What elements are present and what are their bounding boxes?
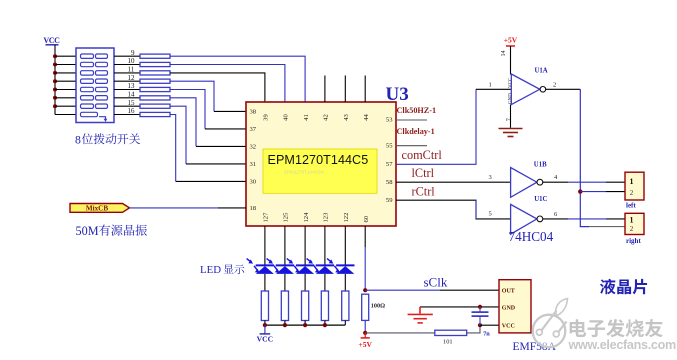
svg-text:sClk: sClk — [424, 274, 448, 289]
svg-text:1: 1 — [489, 82, 492, 89]
svg-text:EPM1270T144C5N: EPM1270T144C5N — [284, 170, 324, 175]
svg-text:lCtrl: lCtrl — [412, 166, 435, 180]
svg-text:U1C: U1C — [534, 196, 547, 203]
power +5V (bottom) — [358, 333, 372, 349]
LED D1 — [247, 259, 275, 274]
wire (resistor 101 to VCC node) — [467, 325, 480, 333]
watermark logo circle — [533, 299, 568, 348]
svg-text:101: 101 — [443, 338, 453, 345]
wire (switch to resistor row, pin 16) — [114, 114, 140, 116]
wire rCtrl (pin 59 to U1C input) — [396, 200, 511, 219]
resistor R13 100ohm — [362, 294, 369, 320]
resistor R4 — [140, 79, 170, 83]
junction (VCC rail row 6) — [53, 96, 57, 100]
wire (VCC rail to switch pin, row 5) — [55, 89, 76, 91]
svg-text:41: 41 — [303, 114, 310, 121]
svg-text:VCC: VCC — [43, 36, 60, 45]
wire (switch to resistor row, pin 11) — [114, 72, 140, 74]
wire (+5V node to resistor 101) — [365, 332, 435, 334]
connector J-right body — [625, 213, 644, 234]
wire (junction to left connector pin 2) — [580, 191, 606, 193]
svg-text:U1A: U1A — [535, 68, 548, 75]
junction (VCC bus at R11) — [303, 323, 307, 327]
svg-text:57: 57 — [386, 161, 393, 168]
wire comCtrl (pin 57 to U1A input) — [396, 89, 476, 164]
wire (switch to resistor row, pin 10) — [114, 64, 140, 66]
svg-text:60: 60 — [363, 215, 370, 222]
wire (switch to resistor row, pin 14) — [114, 97, 140, 99]
svg-text:38: 38 — [250, 109, 257, 116]
svg-text:59: 59 — [386, 197, 393, 204]
wire (U1A output vertical bus) — [580, 89, 589, 226]
resistor R12 (LED series) — [321, 291, 328, 321]
wire (U3 pin 60 down) — [364, 226, 366, 247]
svg-text:32: 32 — [250, 144, 257, 151]
wire (LED D1 to resistor) — [264, 274, 266, 291]
resistor R6 — [140, 96, 170, 100]
junction (VCC rail row 5) — [53, 88, 57, 92]
wire (resistor to VCC bus) — [284, 321, 286, 326]
svg-text:10: 10 — [128, 57, 136, 65]
wire stub (pin 55) + net Clkdelay-1 — [396, 145, 427, 147]
svg-text:U3: U3 — [386, 84, 409, 105]
resistor R1 — [140, 54, 170, 58]
wire (LED D4 to resistor) — [324, 274, 326, 291]
port MixCB (sheet entry arrow) — [70, 204, 130, 213]
svg-text:42: 42 — [323, 114, 330, 121]
wire (resistor to VCC bus) — [264, 321, 266, 326]
LED D4 — [307, 259, 335, 274]
resistor R13 (LED series) — [342, 291, 349, 321]
resistor R11 (LED series) — [302, 291, 309, 321]
svg-text:44: 44 — [363, 114, 370, 121]
svg-text:MixCB: MixCB — [86, 205, 109, 213]
label 50M crystal caption (50M有源晶振) — [99, 225, 147, 236]
wire (row 12 to pin 38) — [170, 81, 246, 111]
svg-text:2: 2 — [553, 82, 556, 89]
svg-text:EPM1270T144C5: EPM1270T144C5 — [268, 153, 369, 167]
svg-text:124: 124 — [303, 212, 310, 223]
resistor R2 — [140, 62, 170, 66]
watermark text (elecfans) — [570, 319, 663, 337]
label LED display caption (LED显示) — [224, 264, 245, 274]
wire (U3 pin 123 to LED D4) — [324, 226, 326, 265]
svg-text:right: right — [626, 237, 641, 245]
power VCC (bottom of LED bus) — [257, 325, 273, 343]
wire (row 15 to pin 31) — [170, 106, 246, 164]
wire (switch to resistor row, pin 15) — [114, 105, 140, 107]
svg-text:15: 15 — [128, 99, 136, 107]
wire (resistor to VCC bus) — [344, 321, 346, 326]
junction (to left connector pin 2) — [578, 189, 582, 193]
wire (VCC rail to switch pin, row 4) — [55, 80, 76, 82]
wire (row 13 to pin 37) — [170, 90, 246, 129]
svg-text:12: 12 — [128, 74, 136, 82]
wire (U3 pin 125 to LED D2) — [284, 226, 286, 265]
wire (oscillator GND pin to ground) — [420, 306, 499, 308]
resistor R3 — [140, 71, 170, 75]
wire stub (pin 42) — [324, 76, 326, 103]
svg-text:U1B: U1B — [534, 161, 547, 168]
wire (VCC rail to switch pin, row 6) — [55, 97, 76, 99]
wire (row 16 to pin 30) — [170, 115, 246, 182]
svg-text:40: 40 — [283, 114, 290, 121]
resistor R5 — [140, 87, 170, 91]
svg-text:8: 8 — [75, 132, 81, 146]
svg-text:+5V: +5V — [504, 36, 518, 45]
wire (U3 pin 122 to LED D5) — [344, 226, 346, 265]
wire (VCC rail to switch pin, row 1) — [55, 55, 76, 57]
svg-text:127: 127 — [263, 212, 270, 223]
wire (resistor to VCC bus) — [324, 321, 326, 326]
svg-text:11: 11 — [128, 66, 135, 74]
svg-text:comCtrl: comCtrl — [402, 148, 443, 162]
capacitor C1 7n — [472, 307, 489, 325]
resistor R9 (LED series) — [261, 291, 268, 321]
wire stub (pin 43) — [344, 76, 346, 103]
switch S1 body (8-bit DIP) — [76, 48, 114, 123]
wire (switch to resistor row, pin 13) — [114, 89, 140, 91]
svg-text:1: 1 — [630, 215, 634, 224]
junction (VCC rail row 7) — [53, 104, 57, 108]
ground (oscillator GND) — [408, 307, 433, 323]
label LCD caption (液晶片) — [600, 279, 647, 295]
resistor R10 (LED series) — [281, 291, 288, 321]
connector J-left body — [625, 172, 644, 200]
svg-text:+5V: +5V — [358, 340, 372, 349]
op-amp/inverter U1B (74HC04 gate) — [511, 168, 543, 198]
wire (LED D2 to resistor) — [284, 274, 286, 291]
power +5V (U1A pin 14) — [504, 36, 518, 47]
wire (row 10 to pin 40) — [170, 65, 285, 103]
svg-text:100Ω: 100Ω — [371, 303, 385, 310]
wire (U3 pin 124 to LED D3) — [304, 226, 306, 265]
wire (VCC rail to switch pin, row 2) — [55, 64, 76, 66]
wire lCtrl (pin 58 to U1B input) — [396, 181, 511, 183]
svg-text:55: 55 — [386, 142, 393, 149]
junction (VCC bus at R12) — [323, 323, 327, 327]
junction (VCC rail row 3) — [53, 71, 57, 75]
junction (sClk node) — [363, 288, 367, 292]
wire (row 9 to pin 41) — [170, 56, 305, 102]
svg-text:Clk50HZ-1: Clk50HZ-1 — [397, 106, 437, 115]
svg-text:7n: 7n — [483, 331, 490, 338]
wire (100ohm to +5V node) — [364, 320, 366, 333]
junction (+5V node) — [363, 331, 367, 335]
junction (VCC bus at R10) — [283, 323, 287, 327]
wire (LED D3 to resistor) — [304, 274, 306, 291]
oscillator U4 (OUT/GND/VCC box) — [499, 280, 531, 333]
op-amp/inverter U1C (74HC04 gate) — [511, 204, 543, 234]
wire (switch to resistor row, pin 12) — [114, 80, 140, 82]
LED D2 — [267, 259, 295, 274]
IC U3 inner value box — [263, 149, 377, 193]
svg-text:13: 13 — [128, 82, 136, 90]
svg-text:14: 14 — [128, 90, 136, 98]
svg-text:14: 14 — [501, 51, 507, 57]
svg-text:OUT: OUT — [502, 288, 515, 294]
resistor R8 — [140, 112, 170, 116]
svg-text:2: 2 — [630, 189, 634, 197]
wire (row 11 to pin 39) — [170, 73, 265, 102]
wire (U1A pin 14 to +5V) — [510, 46, 512, 75]
junction (VCC bus at R9) — [263, 323, 267, 327]
svg-text:rCtrl: rCtrl — [412, 185, 436, 199]
wire (MixCB to U3 pin 18) — [130, 207, 219, 209]
ground (U1A pin 7) — [499, 129, 523, 137]
op-amp/inverter U1A (74HC04 gate) — [509, 74, 546, 105]
junction (VCC rail row 1) — [53, 54, 57, 58]
wire stub (pin 44) — [364, 76, 366, 103]
svg-text:43: 43 — [343, 114, 350, 121]
svg-text:31: 31 — [250, 161, 257, 168]
svg-text:7: 7 — [506, 118, 512, 121]
svg-text:VCC: VCC — [502, 323, 515, 329]
resistor R14 101 — [435, 330, 467, 335]
svg-text:1: 1 — [630, 177, 634, 186]
resistor R7 — [140, 104, 170, 108]
svg-text:GND: GND — [502, 306, 516, 312]
wire (VCC rail to switch pin, row 8) — [55, 114, 76, 116]
wire (VCC node to oscillator VCC pin) — [480, 324, 499, 326]
svg-text:GND: GND — [509, 93, 514, 104]
LED D3 — [287, 259, 315, 274]
svg-text:VCC: VCC — [509, 77, 514, 88]
junction (VCC rail row 2) — [53, 63, 57, 67]
svg-text:50M: 50M — [76, 224, 99, 238]
wire (row 14 to pin 32) — [170, 98, 246, 147]
svg-text:30: 30 — [250, 179, 257, 186]
svg-text:53: 53 — [386, 117, 393, 124]
wire (switch to resistor row, pin 9) — [114, 55, 140, 57]
svg-text:9: 9 — [131, 49, 135, 57]
svg-text:123: 123 — [323, 212, 330, 223]
svg-text:125: 125 — [283, 212, 290, 223]
svg-text:16: 16 — [128, 107, 136, 115]
junction (GND / capacitor top) — [478, 305, 482, 309]
svg-text:58: 58 — [386, 179, 393, 186]
svg-text:122: 122 — [343, 213, 350, 223]
svg-text:37: 37 — [250, 126, 257, 133]
wire (LED D5 to resistor) — [344, 274, 346, 291]
wire sClk (node to oscillator OUT) — [365, 289, 440, 291]
svg-text:LED: LED — [200, 264, 221, 276]
junction (oscillator VCC node) — [478, 323, 482, 327]
svg-text:VCC: VCC — [257, 334, 273, 343]
svg-text:Clkdelay-1: Clkdelay-1 — [397, 127, 435, 136]
wire stub (pin 53) + net Clk50HZ-1 — [396, 119, 427, 121]
svg-text:39: 39 — [263, 114, 270, 121]
wire (U1A pin 7 to ground) — [510, 105, 512, 128]
LED D5 — [327, 259, 355, 274]
junction (VCC rail row 4) — [53, 79, 57, 83]
power VCC (top-left rail) — [43, 36, 60, 115]
wire (VCC rail to switch pin, row 7) — [55, 105, 76, 107]
wire (resistor to VCC bus) — [304, 321, 306, 326]
svg-text:www.elecfans.com: www.elecfans.com — [568, 338, 677, 352]
svg-text:74HC04: 74HC04 — [509, 229, 554, 244]
wire (VCC rail to switch pin, row 3) — [55, 72, 76, 74]
wire (LED VCC bus) — [265, 324, 345, 326]
IC U3 EPM1270T144C5 body — [246, 102, 396, 226]
svg-text:left: left — [626, 201, 636, 209]
svg-text:2: 2 — [630, 225, 634, 233]
svg-text:18: 18 — [250, 205, 257, 212]
wire (U3 pin 127 to LED D1) — [264, 226, 266, 265]
